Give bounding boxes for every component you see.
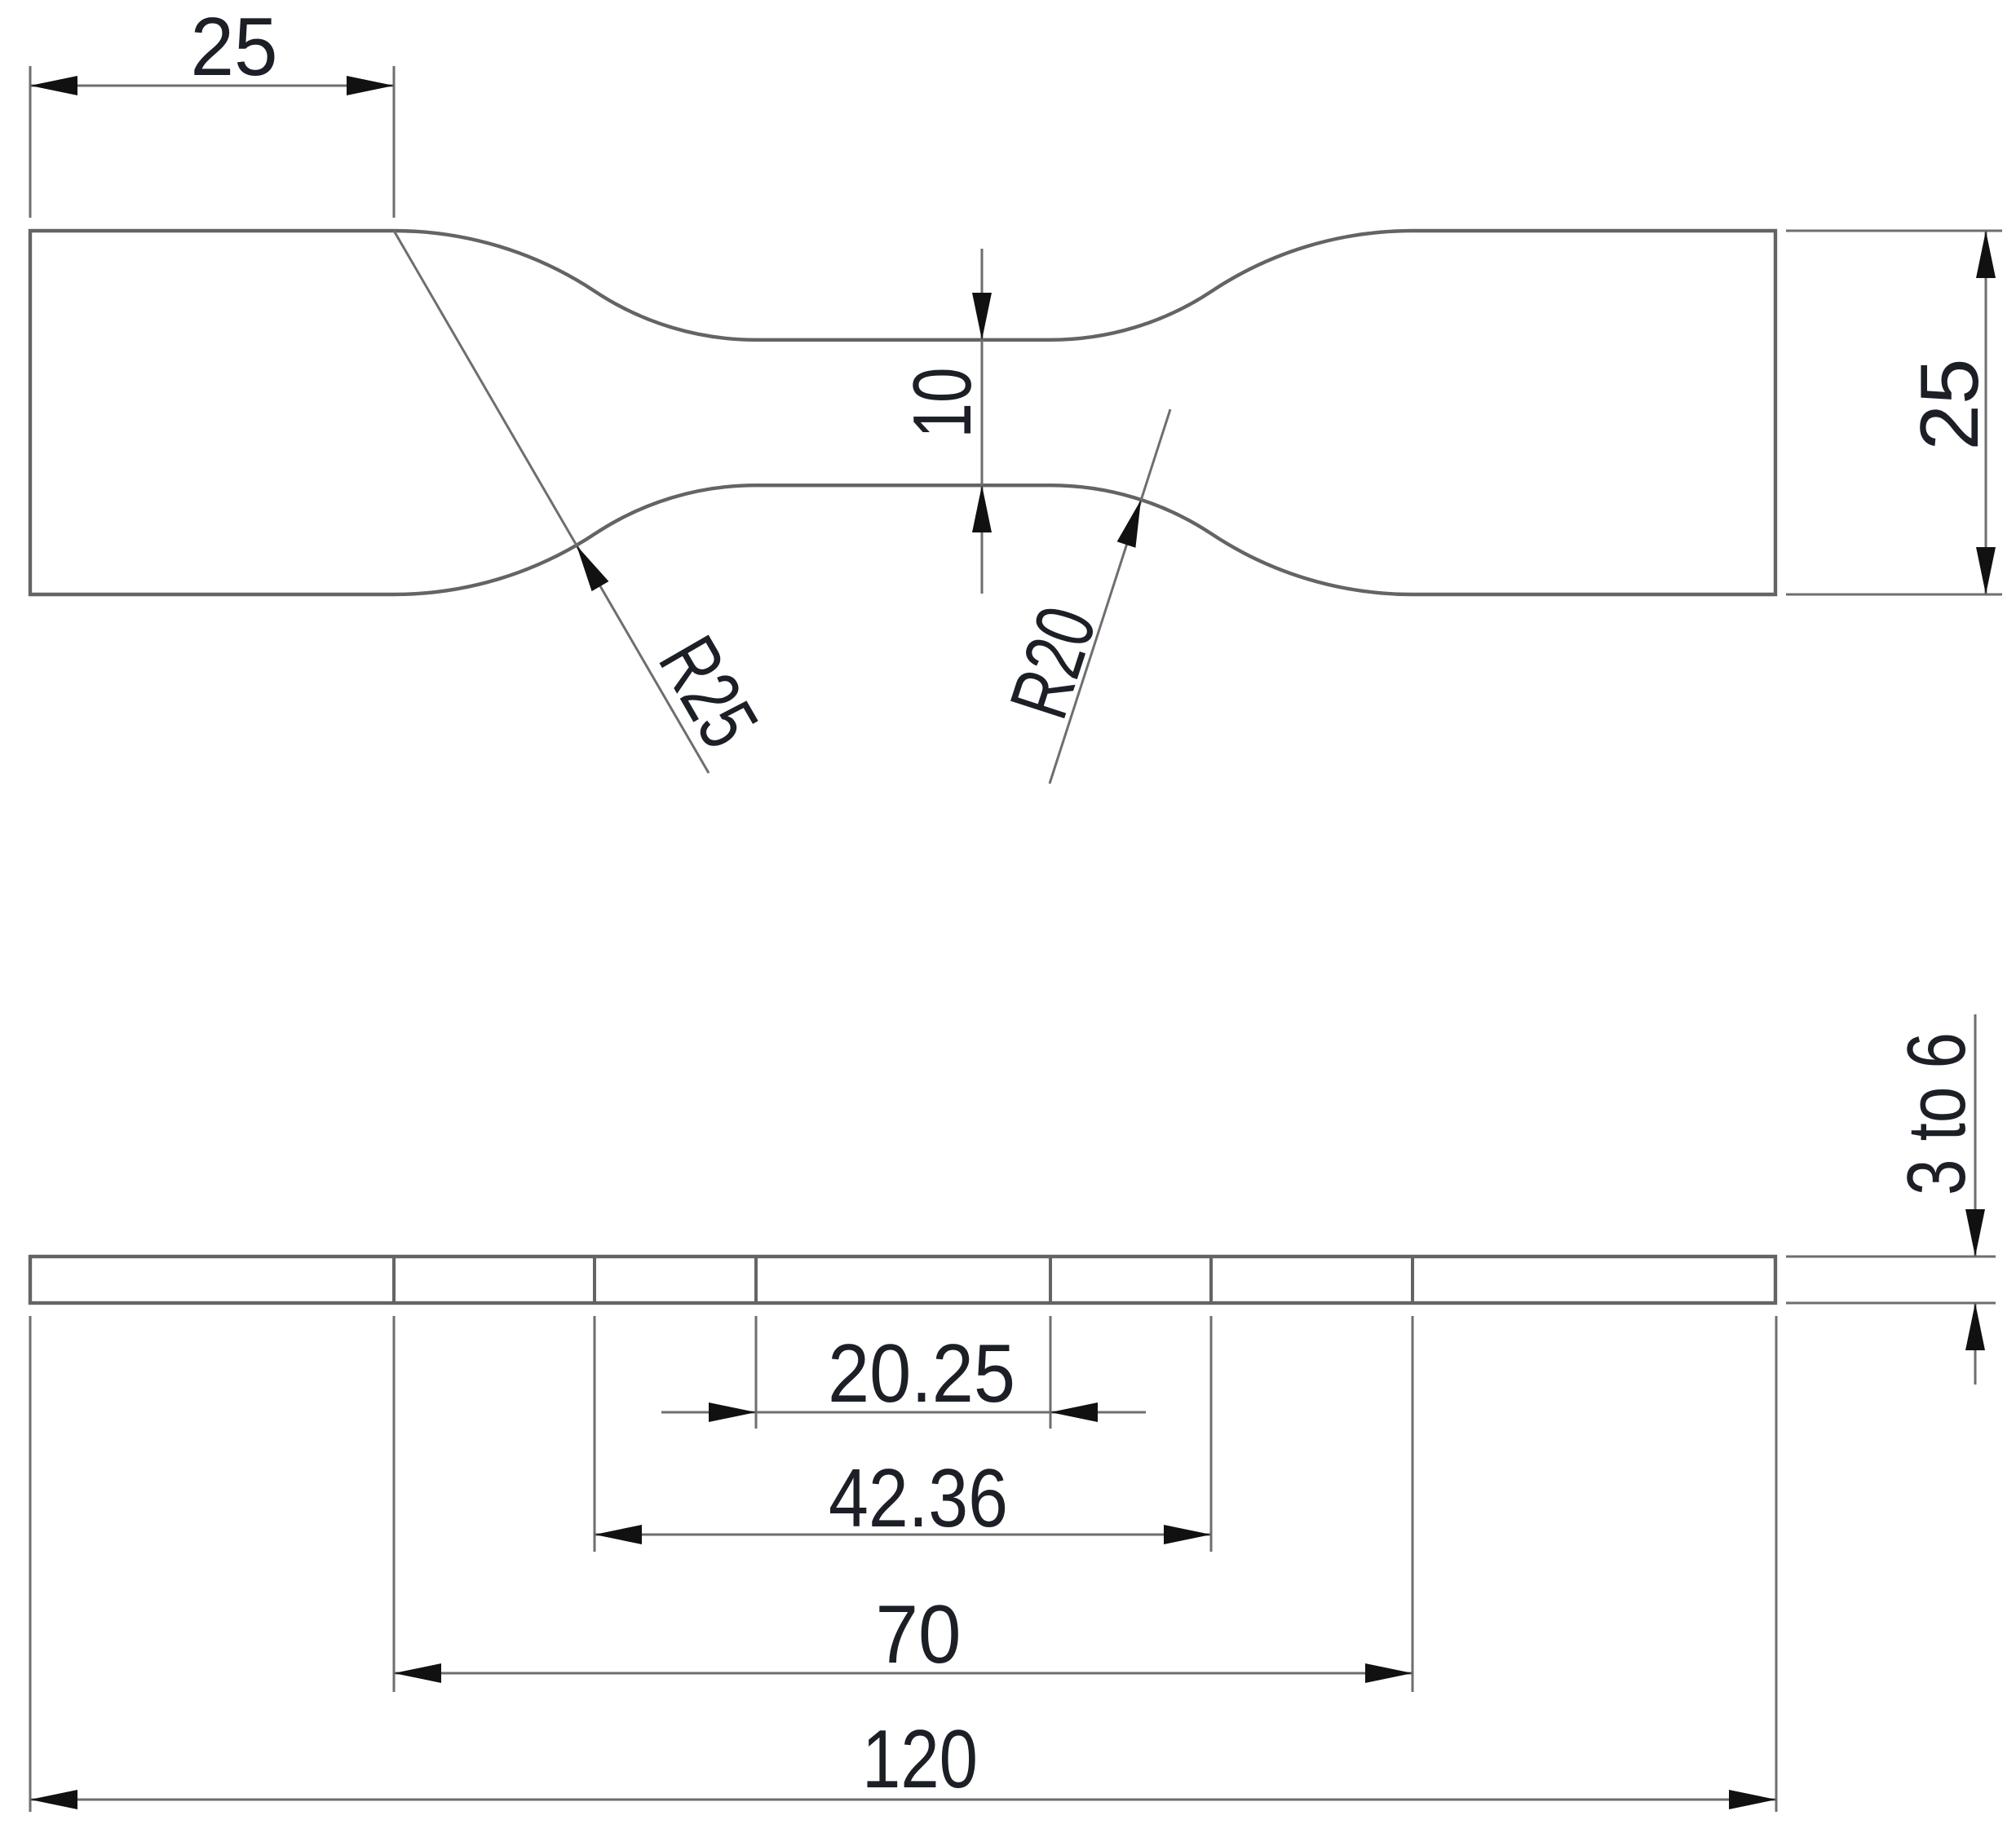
- dimension 25 (top-left) right arrowhead: [347, 76, 394, 95]
- dimension 25 (top-left) extension line right: [393, 66, 396, 218]
- dimension 3 to 6 dimension line lower: [1974, 1303, 1977, 1385]
- dimension 3 to 6 extension line top: [1786, 1256, 1996, 1258]
- dimension 3 to 6 upper arrowhead: [1965, 1209, 1985, 1257]
- dimension 10 top arrowhead: [972, 293, 992, 340]
- dimension 70 dimension line: [394, 1672, 1413, 1675]
- dimension 20.25 right arrowhead: [1050, 1402, 1098, 1422]
- dimension 42.36 right arrowhead: [1164, 1525, 1211, 1544]
- extension line below side view at x=1485 (for 42.36): [1210, 1316, 1213, 1552]
- svg-text:25: 25: [1904, 359, 1996, 451]
- extension line below side view at x=483 (for 70): [393, 1316, 396, 1692]
- dimension 25 (right side) top arrowhead: [1976, 231, 1996, 278]
- dimension 20.25 dimension line: [661, 1411, 1146, 1414]
- svg-text:70: 70: [876, 1589, 962, 1681]
- dimension 25 (right side) extension line bottom: [1786, 594, 2002, 596]
- extension line below side view at x=729 (for 42.36): [594, 1316, 596, 1552]
- dimension 25 (right side) dimension line: [1985, 231, 1987, 594]
- dimension 3 to 6 lower arrowhead: [1965, 1303, 1985, 1350]
- dimension 42.36 left arrowhead: [595, 1525, 642, 1544]
- dimension 10 (neck width) dimension line: [981, 249, 984, 594]
- svg-text:25: 25: [191, 2, 278, 93]
- dimension 25 (top-left) left arrowhead: [30, 76, 77, 95]
- side view divider at 25mm: [392, 1257, 396, 1303]
- dimension 120 right arrowhead: [1729, 1790, 1776, 1809]
- extension line below side view at x=1288 (for 20.25): [1050, 1316, 1052, 1429]
- radius callout R25 leader line: [394, 231, 709, 773]
- extension line below side view at x=927 (for 20.25): [755, 1316, 758, 1429]
- side view (thin strip) outline: [30, 1257, 1775, 1303]
- extension line below side view at x=2178 (for 120): [1775, 1316, 1778, 1812]
- dimension 70 right arrowhead: [1365, 1663, 1413, 1683]
- dogbone specimen outline (top view): [30, 231, 1775, 594]
- side view divider at 38.82mm: [593, 1257, 596, 1303]
- dimension 120 left arrowhead: [30, 1790, 77, 1809]
- dimension 10 bottom arrowhead: [972, 485, 992, 532]
- dimension 42.36 dimension line: [595, 1534, 1211, 1536]
- side view divider at 70.125mm: [1049, 1257, 1052, 1303]
- dimension 20.25 left arrowhead: [709, 1402, 756, 1422]
- extension line below side view at x=37 (for 120): [29, 1316, 32, 1812]
- side view divider at 95mm: [1411, 1257, 1414, 1303]
- svg-text:20.25: 20.25: [828, 1328, 1015, 1420]
- dimension 3 to 6 extension line bottom: [1786, 1302, 1996, 1305]
- dimension 25 (right side) bottom arrowhead: [1976, 547, 1996, 594]
- extension line below side view at x=1732 (for 70): [1412, 1316, 1414, 1692]
- dimension 25 (top-left) extension line left: [29, 66, 32, 218]
- svg-text:10: 10: [897, 368, 988, 439]
- side view divider at 49.875mm: [754, 1257, 758, 1303]
- radius callout R20 leader line: [1050, 409, 1170, 784]
- svg-text:42.36: 42.36: [829, 1453, 1008, 1544]
- dimension 120 dimension line: [30, 1799, 1776, 1801]
- side view divider at 81.18mm: [1209, 1257, 1213, 1303]
- dimension 25 (top-left) dimension line: [30, 85, 394, 87]
- radius callout R20 arrowhead: [1117, 500, 1141, 548]
- dimension 70 left arrowhead: [394, 1663, 441, 1683]
- svg-text:3 to 6: 3 to 6: [1891, 1032, 1983, 1195]
- dimension 25 (right side) extension line top: [1786, 230, 2002, 232]
- svg-text:120: 120: [862, 1714, 978, 1805]
- radius callout R25 arrowhead: [577, 545, 608, 591]
- dimension 3 to 6 dimension line upper: [1974, 1014, 1977, 1257]
